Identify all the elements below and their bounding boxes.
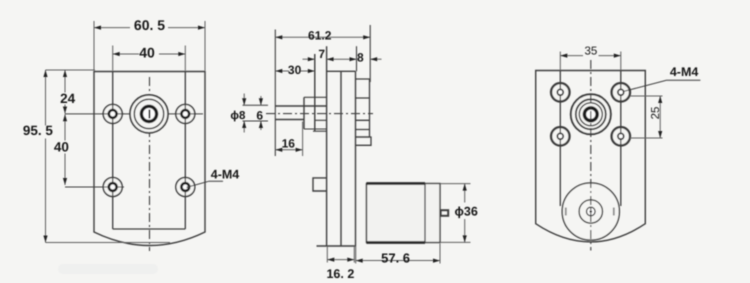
dimension 6 arrows <box>259 96 263 130</box>
svg-text:61.2: 61.2 <box>308 28 332 42</box>
centerline vertical <box>590 60 592 251</box>
svg-text:4-M4: 4-M4 <box>211 167 240 181</box>
housing inner wall <box>340 71 342 246</box>
plate inner boss rectangle <box>113 72 186 230</box>
svg-text:60. 5: 60. 5 <box>134 17 165 33</box>
dimension 40 left <box>63 114 67 185</box>
screw hole bottom-left <box>551 126 569 147</box>
inner boss vertical left <box>559 71 561 207</box>
housing top edge <box>327 70 356 72</box>
dimension 16 <box>275 122 302 157</box>
extension line left (61.2 / 30 / 16) and shaft end face <box>274 30 276 157</box>
shaft centerline <box>266 113 373 115</box>
svg-text:35: 35 <box>585 45 598 57</box>
dimension 40 top <box>113 46 186 71</box>
svg-text:16. 2: 16. 2 <box>326 267 354 281</box>
output shaft <box>275 106 326 120</box>
housing bottom edge <box>317 245 356 247</box>
front plate right face <box>326 46 328 246</box>
dimension 24 <box>63 70 67 114</box>
svg-text:57. 6: 57. 6 <box>381 250 410 265</box>
dimension phi8 arrows <box>242 94 246 133</box>
svg-text:25: 25 <box>650 107 662 120</box>
label 4-M4 with leader <box>187 181 224 187</box>
svg-text:6: 6 <box>256 109 263 123</box>
svg-text:16: 16 <box>282 137 296 151</box>
hole row line upper <box>65 113 203 115</box>
mounting hole top-left <box>102 103 124 125</box>
svg-text:ϕ8: ϕ8 <box>230 110 246 122</box>
svg-text:30: 30 <box>288 63 302 77</box>
svg-text:95. 5: 95. 5 <box>23 123 54 138</box>
hole row line lower <box>65 186 122 188</box>
screw hole top-left <box>551 82 569 103</box>
dimension 7 and 8 chained arrows <box>303 57 382 61</box>
screw hole top-right <box>612 82 630 103</box>
svg-text:7: 7 <box>318 47 325 61</box>
motor body outline rear view <box>536 71 646 242</box>
screw hole bottom-right <box>612 126 630 147</box>
mounting hole bottom-left <box>102 176 124 198</box>
svg-text:8: 8 <box>357 51 364 65</box>
motor body thick edges <box>367 184 426 243</box>
svg-text:4-M4: 4-M4 <box>670 65 699 79</box>
output shaft hub <box>130 95 168 133</box>
shaft hub rear view <box>571 94 611 134</box>
lower screw boss bump <box>313 178 327 191</box>
shaft hub boss <box>303 97 305 129</box>
svg-text:40: 40 <box>54 139 69 154</box>
label 4-M4 with leader <box>624 80 700 91</box>
svg-text:24: 24 <box>60 91 76 106</box>
rear boss lower step <box>356 137 372 145</box>
dimension 61.2 <box>275 35 370 39</box>
dimension 35 <box>560 52 621 71</box>
dimension 30 <box>275 69 315 73</box>
extension line for 8 left <box>356 46 358 71</box>
housing rear face <box>355 71 357 246</box>
extension line right for 61.2 and 8 <box>369 25 371 82</box>
gearbox plate outline <box>94 72 205 246</box>
dimension 95.5 <box>43 70 170 243</box>
dimension 60.5 <box>94 21 205 71</box>
dimension 57.6 <box>356 244 440 264</box>
faint watermark remnant <box>58 264 158 274</box>
centerline vertical <box>149 77 151 251</box>
svg-text:ϕ36: ϕ36 <box>455 204 478 218</box>
svg-text:40: 40 <box>139 45 155 61</box>
dimension 16.2 <box>327 246 354 263</box>
hub section lines in plate <box>304 97 327 131</box>
motor rear shaft stub <box>441 210 449 216</box>
inner boss vertical right <box>620 71 622 207</box>
dimension phi8 and 6 extension lines <box>243 105 269 121</box>
mounting hole top-right <box>175 103 196 125</box>
dimension 25 <box>630 96 663 138</box>
motor can circle <box>562 183 619 240</box>
front plate left face <box>314 54 316 131</box>
motor end cap line <box>424 184 426 243</box>
motor body <box>367 184 441 243</box>
rear bearing boss <box>356 79 370 137</box>
dimension phi36 <box>440 184 471 243</box>
mounting hole bottom-right <box>176 176 195 198</box>
